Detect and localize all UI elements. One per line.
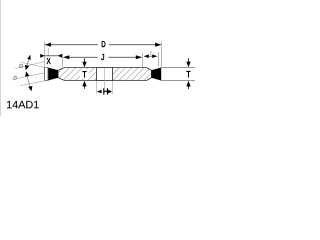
page left edge line [0, 0, 2, 116]
angle symbol upper [19, 64, 23, 68]
dimension D line [45, 44, 161, 46]
angle callout lower: ray 2 [20, 81, 45, 86]
bore hole H region (white gap) [97, 67, 113, 81]
small dimension (rim width) arrows [144, 54, 158, 58]
dimension T right arrows [186, 58, 190, 89]
angle callout lower: arc line [27, 76, 30, 88]
arrow X right (outside) [57, 54, 62, 58]
label T right [186, 71, 190, 78]
extension line left (D/X) [44, 42, 46, 68]
extension line right (D) [161, 42, 163, 67]
arrow X left (outside) [40, 54, 45, 58]
arrow J left [63, 55, 69, 59]
dimension X line [45, 55, 57, 57]
angle callout lower: arrow up [25, 71, 29, 76]
label H [102, 88, 108, 95]
extension line small dim right [157, 52, 159, 66]
arrow D right [155, 43, 161, 47]
angle callout upper: ray 1 [15, 62, 45, 69]
wheel left end strip (white box) [45, 68, 49, 81]
angle callout upper: ray 2 [21, 62, 45, 68]
label small dim [150, 51, 152, 55]
dimension H arrows [97, 90, 112, 94]
title 14AD1 [7, 101, 12, 108]
angle callout upper: arc line [27, 57, 30, 68]
bore centerline [104, 68, 106, 95]
wheel left edge [44, 67, 46, 81]
extension line J right [142, 53, 144, 68]
dimension J line [69, 56, 136, 58]
extension line J left [62, 53, 64, 68]
label D [102, 41, 106, 47]
angle callout upper: arrow up [27, 55, 30, 60]
label X [46, 58, 50, 64]
H extension lines [97, 81, 113, 95]
angle callout lower: ray 1 [16, 73, 45, 79]
arrow D left [45, 43, 51, 47]
angle symbol lower [13, 76, 17, 80]
label J [101, 54, 104, 60]
dimension T middle arrows [82, 58, 86, 89]
angle callout lower: arrow down [28, 86, 32, 91]
angle callout upper: arrow down [25, 65, 29, 70]
label T middle [80, 69, 89, 78]
arrow J right [136, 55, 142, 59]
abrasive rim left (black) [48, 68, 58, 81]
T extension lines right [161, 68, 195, 81]
abrasive rim right (black) [152, 68, 162, 81]
core (hatched wheel body) [58, 68, 152, 81]
extension line stub at rim left edge [47, 48, 49, 56]
